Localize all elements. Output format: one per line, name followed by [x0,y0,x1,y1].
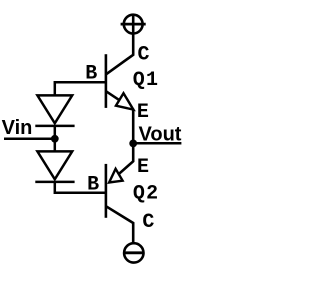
svg-text:E: E [137,156,149,179]
transistor Q2 base bar [105,164,108,218]
wire: D2 down, corner, base wire to Q2 [55,182,106,193]
svg-text:E: E [137,101,149,124]
wire: Vin lead [4,138,55,141]
svg-text:C: C [142,211,154,234]
node: Vout junction dot [129,140,137,148]
diode D2 [35,139,74,182]
wire: Q2 collector diagonal and down to negative supply [106,206,133,242]
wire: Q1 emitter down to Vout node [132,109,135,144]
diode D1 [35,95,74,138]
Q1 emitter arrow (open, pointing out - NPN) [116,93,133,109]
wire: Vout lead to right edge [133,142,181,145]
negative supply terminal [124,243,144,262]
wire: Vout node down to Q2 emitter corner, diagonal to arrow [115,143,133,177]
transistor Q1 base bar [105,54,108,108]
svg-text:C: C [138,44,150,67]
svg-text:B: B [87,174,99,197]
svg-text:Vin: Vin [2,117,33,139]
node: junction dot between diodes (Vin node) [51,135,59,143]
svg-text:Q1: Q1 [133,69,159,92]
Q2 emitter arrow (open, pointing in - PNP) [109,169,123,183]
wire: supply to Q1 collector [106,15,133,74]
svg-text:Q2: Q2 [133,183,159,206]
wire: Q1 emitter diagonal [106,91,125,103]
positive supply terminal [121,15,146,34]
wire: base wire to Q1 and lead down to diode D1 [55,82,106,96]
